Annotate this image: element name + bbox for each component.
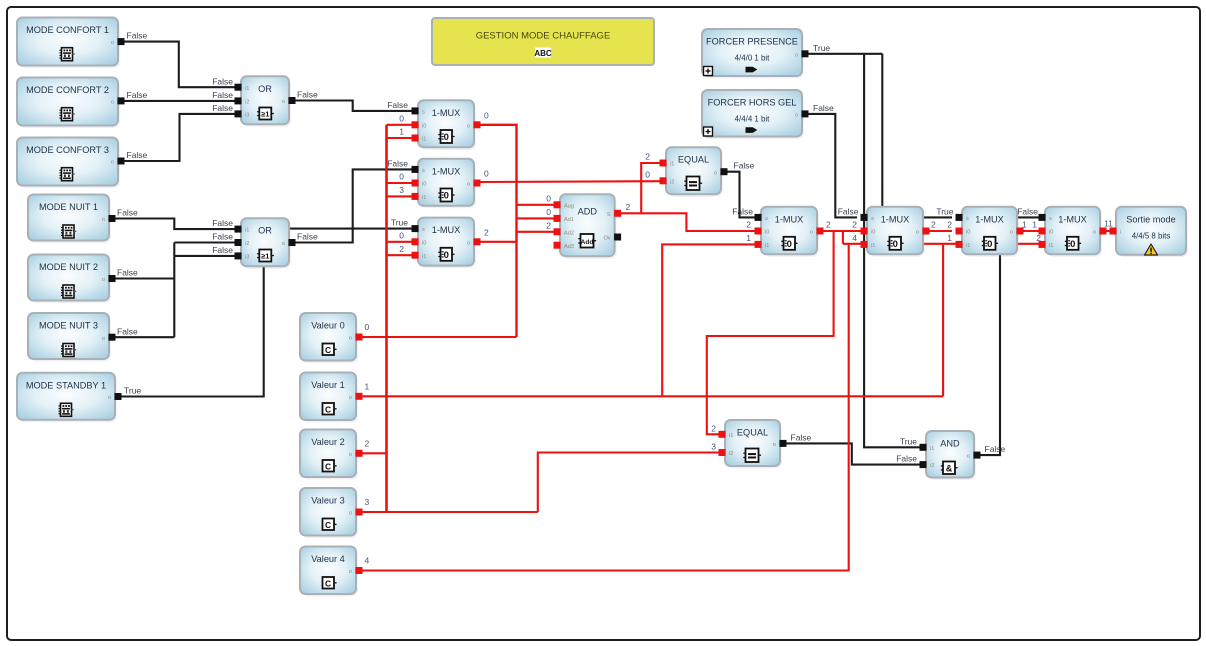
svg-text:OR: OR (258, 226, 272, 236)
wire net Valeur0 row (358, 336, 517, 338)
svg-text:C: C (325, 578, 331, 588)
svg-text:ABC: ABC (534, 49, 552, 58)
svg-text:Valeur 2: Valeur 2 (311, 437, 345, 447)
svg-text:False: False (985, 444, 1006, 454)
svg-text:o: o (282, 241, 285, 247)
svg-text:Aug: Aug (564, 203, 574, 209)
block EQUAL U4 (660, 147, 728, 197)
wire net E.i1 feeder drop (842, 231, 844, 244)
svg-text:&: & (946, 463, 953, 473)
svg-text:False: False (297, 232, 318, 242)
svg-text:EQUAL: EQUAL (678, 155, 709, 165)
svg-text:4/4/5 8 bits: 4/4/5 8 bits (1132, 231, 1171, 240)
svg-text:False: False (117, 268, 138, 278)
wire net STANDBY1.o -&gt; MUXC.s (118, 229, 414, 397)
wire stub MUXA.i1 (387, 137, 415, 139)
svg-text:False: False (387, 158, 408, 168)
svg-text:11: 11 (1104, 219, 1113, 229)
svg-text:Valeur 1: Valeur 1 (311, 380, 345, 390)
svg-text:False: False (813, 103, 834, 113)
wire net Valeur0 trunk vertical (385, 125, 388, 512)
svg-text:EQUAL: EQUAL (737, 428, 768, 438)
svg-text:0: 0 (893, 239, 898, 250)
svg-text:0: 0 (399, 230, 404, 240)
block 1-MUX D (755, 207, 824, 257)
svg-text:False: False (734, 161, 755, 171)
wire net MUXC.o -&gt; ADD.Ad2 (478, 232, 556, 242)
wire stub MUXC.i0 (387, 241, 415, 243)
wire net MUXF.o -&gt; MUXG.i0 (1021, 230, 1041, 232)
wire net MUXB.o -&gt; EQUAL1.i2 (478, 180, 662, 183)
svg-text:1-MUX: 1-MUX (1058, 214, 1087, 224)
svg-text:≥1: ≥1 (261, 252, 269, 261)
svg-text:i1: i1 (930, 446, 934, 452)
svg-text:True: True (936, 206, 953, 216)
svg-text:2: 2 (399, 244, 404, 254)
svg-text:False: False (117, 326, 138, 336)
wire stub MUXA.i0 (387, 124, 415, 126)
svg-text:o: o (102, 277, 105, 283)
svg-text:s: s (1049, 216, 1052, 222)
svg-text:0: 0 (444, 132, 449, 143)
svg-text:AND: AND (940, 439, 960, 449)
svg-text:0: 0 (365, 322, 370, 332)
svg-text:o: o (108, 395, 111, 401)
svg-text:3: 3 (365, 497, 370, 507)
svg-text:i3: i3 (245, 113, 249, 119)
wire stub ADD.Aug (517, 204, 557, 206)
svg-text:i1: i1 (245, 228, 249, 234)
wire net PRESENCE.o horizontal (804, 53, 882, 55)
icon FORCER PRESENCE plus (704, 67, 713, 76)
svg-text:i2: i2 (245, 241, 249, 247)
svg-text:2: 2 (852, 220, 857, 230)
svg-text:3: 3 (711, 442, 716, 452)
block 1-MUX B (412, 159, 481, 209)
svg-text:MODE NUIT 2: MODE NUIT 2 (39, 262, 98, 272)
svg-text:OR: OR (258, 84, 272, 94)
svg-text:S: S (607, 212, 611, 218)
svg-text:s: s (765, 216, 768, 222)
block ADD U3 (554, 194, 622, 259)
svg-text:≥1: ≥1 (261, 110, 269, 119)
svg-text:C: C (325, 461, 331, 471)
svg-text:False: False (212, 90, 233, 100)
svg-text:MODE CONFORT 3: MODE CONFORT 3 (26, 145, 109, 155)
block MODE NUIT 1 (28, 195, 116, 244)
wire net Valeur1 -&gt; MUXD.i1 (662, 244, 757, 396)
svg-text:0: 0 (444, 250, 449, 261)
svg-text:True: True (900, 436, 917, 446)
svg-text:1-MUX: 1-MUX (432, 166, 461, 176)
wire net EQUAL2.o -&gt; AND.i2 (783, 443, 922, 464)
svg-text:2: 2 (931, 220, 936, 230)
svg-text:0: 0 (787, 239, 792, 250)
wire net NUIT1.o -&gt; OR2.i1 (112, 219, 237, 230)
svg-text:o: o (111, 40, 114, 46)
block EQUAL U5 (719, 420, 787, 469)
svg-text:2: 2 (826, 220, 831, 230)
wire stub OR2.i3 (174, 255, 237, 257)
svg-text:Valeur 0: Valeur 0 (311, 321, 345, 331)
svg-text:i2: i2 (930, 463, 934, 469)
svg-text:s: s (871, 216, 874, 222)
svg-text:o: o (1010, 230, 1013, 236)
svg-text:GESTION MODE CHAUFFAGE: GESTION MODE CHAUFFAGE (476, 31, 611, 42)
block 1-MUX C (412, 218, 481, 269)
svg-text:False: False (791, 432, 812, 442)
svg-text:i0: i0 (765, 230, 769, 236)
svg-text:o: o (282, 99, 285, 105)
svg-text:1: 1 (746, 233, 751, 243)
block Valeur 4 (300, 547, 363, 597)
block Valeur 3 (300, 488, 363, 538)
svg-text:1: 1 (399, 127, 404, 137)
svg-text:i1: i1 (765, 243, 769, 249)
svg-text:i0: i0 (1049, 230, 1053, 236)
svg-text:False: False (212, 218, 233, 228)
svg-text:False: False (127, 90, 148, 100)
svg-text:i3: i3 (245, 255, 249, 261)
wire net MUXE.o -&gt; MUXF.i0 (927, 230, 952, 232)
svg-text:i1: i1 (966, 243, 970, 249)
svg-text:o: o (967, 454, 970, 460)
svg-text:FORCER HORS GEL: FORCER HORS GEL (708, 98, 797, 108)
svg-text:o: o (467, 240, 470, 246)
svg-text:1: 1 (947, 233, 952, 243)
svg-text:False: False (117, 208, 138, 218)
svg-text:o: o (111, 160, 114, 166)
block MODE CONFORT 1 (17, 18, 125, 69)
svg-text:Ov: Ov (603, 236, 610, 242)
svg-text:False: False (212, 103, 233, 113)
svg-text:1-MUX: 1-MUX (881, 214, 910, 224)
svg-text:o: o (349, 452, 352, 458)
wire net OR1.o -&gt; MUXA.s (287, 101, 414, 111)
svg-text:0: 0 (399, 172, 404, 182)
block 1-MUX G (1039, 207, 1107, 257)
wire net ADD.S -&gt; MUXD.i0 (641, 213, 757, 231)
svg-text:2: 2 (947, 220, 952, 230)
wire stub MUXB.i0 (387, 182, 415, 184)
wire stub MUXC.i1 (387, 254, 415, 256)
wire net MUXA.o -&gt; ADD riser (478, 125, 517, 337)
block Valeur 2 (300, 430, 363, 480)
svg-text:0: 0 (484, 169, 489, 179)
svg-text:Ad2: Ad2 (564, 230, 574, 236)
block Valeur 1 (300, 373, 363, 423)
svg-text:MODE CONFORT 2: MODE CONFORT 2 (26, 85, 109, 95)
svg-text:i2: i2 (245, 100, 249, 106)
wire net MUXG.o -&gt; SORTIE.i (1104, 230, 1112, 232)
wire net NUIT3.o corner (112, 336, 174, 338)
svg-text:i0: i0 (422, 182, 426, 188)
svg-text:FORCER PRESENCE: FORCER PRESENCE (706, 37, 798, 47)
svg-text:True: True (391, 218, 408, 228)
svg-text:True: True (124, 386, 141, 396)
svg-text:False: False (212, 76, 233, 86)
block FORCER PRESENCE (702, 29, 809, 79)
wire net CONFORT1.o -&gt; OR1.i1 (121, 42, 237, 88)
svg-text:i0: i0 (871, 230, 875, 236)
wire stub MUXB.i1 (387, 195, 415, 197)
svg-text:False: False (127, 31, 148, 41)
svg-text:False: False (838, 206, 859, 216)
wire net row i1 right chain (843, 243, 1041, 245)
svg-text:o: o (349, 336, 352, 342)
svg-text:o: o (773, 442, 776, 448)
wire net EQUAL1.o -&gt; MUXD.s (725, 172, 757, 218)
svg-text:MODE CONFORT 1: MODE CONFORT 1 (26, 25, 109, 35)
svg-text:Add: Add (581, 239, 594, 246)
svg-text:i0: i0 (422, 240, 426, 246)
svg-text:o: o (1093, 230, 1096, 236)
wire stub OR2.i2 (174, 241, 237, 243)
svg-text:C: C (325, 404, 331, 414)
svg-text:i1: i1 (1049, 243, 1053, 249)
svg-text:i2: i2 (729, 451, 733, 457)
wire net MUXD.o -&gt; EQUAL2.i1 (707, 231, 834, 434)
wire net MUXD.o -&gt; MUXE.i0 (821, 230, 863, 232)
svg-text:0: 0 (645, 169, 650, 179)
svg-text:i1: i1 (729, 433, 733, 439)
block 1-MUX A (412, 100, 481, 150)
wire stub ADD.Ad1 (517, 217, 557, 219)
svg-text:i1: i1 (670, 162, 674, 168)
svg-text:3: 3 (399, 185, 404, 195)
svg-text:1: 1 (1032, 220, 1037, 230)
svg-text:MODE NUIT 1: MODE NUIT 1 (39, 202, 98, 212)
svg-text:Ad1: Ad1 (564, 217, 574, 223)
svg-text:C: C (325, 345, 331, 355)
svg-text:2: 2 (484, 228, 489, 238)
svg-text:o: o (810, 230, 813, 236)
svg-text:s: s (966, 216, 969, 222)
svg-text:o: o (349, 395, 352, 401)
svg-text:4: 4 (852, 233, 857, 243)
wire net Valeur1 row (358, 395, 943, 397)
svg-text:False: False (297, 90, 318, 100)
svg-text:False: False (387, 100, 408, 110)
svg-text:Ad3: Ad3 (564, 244, 574, 250)
block MODE STANDBY 1 (17, 373, 122, 423)
svg-text:False: False (732, 206, 753, 216)
title box GESTION MODE CHAUFFAGE (432, 18, 654, 65)
svg-text:s: s (422, 110, 425, 116)
wire net PRESENCE -&gt; MUXF.s (882, 54, 952, 218)
wire net CONFORT2.o -&gt; OR1.i2 (121, 100, 237, 102)
svg-text:4/4/4 1 bit: 4/4/4 1 bit (735, 115, 770, 124)
wire net NUIT2.o junction (112, 277, 174, 279)
svg-text:o: o (916, 230, 919, 236)
svg-text:Sortie mode: Sortie mode (1126, 214, 1176, 224)
svg-text:False: False (212, 232, 233, 242)
icon FORCER HORS GEL flag (746, 127, 758, 133)
svg-text:i1: i1 (245, 86, 249, 92)
svg-text:0: 0 (987, 239, 992, 250)
svg-text:0: 0 (1070, 239, 1075, 250)
block OR U1 (235, 76, 296, 127)
block 1-MUX E (861, 207, 930, 257)
svg-text:2: 2 (711, 423, 716, 433)
svg-text:ADD: ADD (578, 207, 598, 217)
wire net OR2 input trunk (173, 243, 175, 338)
svg-text:0: 0 (546, 193, 551, 203)
block 1-MUX F (956, 207, 1024, 257)
wire net ADD.S -&gt; EQUAL1.i1 (641, 163, 662, 213)
svg-text:i1: i1 (422, 195, 426, 201)
svg-text:o: o (349, 569, 352, 575)
svg-text:4/4/0 1 bit: 4/4/0 1 bit (735, 54, 770, 63)
wire net Valeur4 row -&gt; MUXE.i1 riser (358, 244, 849, 571)
svg-text:s: s (422, 227, 425, 233)
wire net HORSGEL.o -&gt; MUXE.s (804, 114, 857, 217)
wire net AND.o -&gt; MUXG.s (977, 217, 1041, 455)
icon FORCER PRESENCE flag (746, 67, 758, 73)
svg-text:i1: i1 (871, 243, 875, 249)
svg-text:2: 2 (746, 220, 751, 230)
svg-text:i0: i0 (966, 230, 970, 236)
svg-text:i0: i0 (422, 123, 426, 129)
wire net PRESENCE -&gt; AND.i1 (864, 54, 922, 448)
wire net CONFORT3.o -&gt; OR1.i3 (121, 114, 237, 161)
block MODE CONFORT 2 (17, 78, 125, 129)
svg-text:1-MUX: 1-MUX (975, 214, 1004, 224)
svg-text:o: o (795, 113, 798, 119)
wire net Valeur3 row (358, 511, 538, 513)
icon SORTIE warning (1145, 244, 1158, 255)
block SORTIE MODE (1110, 207, 1189, 257)
svg-text:1-MUX: 1-MUX (775, 214, 804, 224)
svg-text:False: False (212, 245, 233, 255)
svg-text:o: o (349, 511, 352, 517)
block AND U6 (920, 431, 981, 480)
svg-text:True: True (813, 43, 830, 53)
svg-text:0: 0 (444, 191, 449, 202)
block MODE NUIT 3 (28, 313, 116, 362)
wire net Valeur1 -&gt; MUXF.i1 riser (942, 244, 944, 396)
block Valeur 0 (300, 313, 363, 363)
svg-text:2: 2 (626, 202, 631, 212)
svg-text:2: 2 (645, 152, 650, 162)
svg-text:MODE NUIT 3: MODE NUIT 3 (39, 321, 98, 331)
svg-text:o: o (795, 52, 798, 58)
block MODE NUIT 2 (28, 255, 116, 304)
svg-text:2: 2 (365, 438, 370, 448)
svg-text:o: o (714, 170, 717, 176)
svg-text:Valeur 4: Valeur 4 (311, 554, 345, 564)
svg-text:False: False (896, 454, 917, 464)
svg-text:0: 0 (484, 111, 489, 121)
svg-text:o: o (102, 217, 105, 223)
svg-text:o: o (467, 123, 470, 129)
svg-text:1-MUX: 1-MUX (432, 225, 461, 235)
svg-text:False: False (127, 150, 148, 160)
svg-text:C: C (325, 520, 331, 530)
svg-text:4: 4 (365, 556, 370, 566)
block FORCER HORS GEL (702, 90, 809, 139)
svg-text:Valeur 3: Valeur 3 (311, 496, 345, 506)
svg-text:1-MUX: 1-MUX (432, 108, 461, 118)
svg-text:s: s (422, 168, 425, 174)
wire net ADD.S junction (618, 212, 641, 214)
wire net OR2.o -&gt; MUXB.s (287, 169, 414, 242)
svg-text:2: 2 (546, 220, 551, 230)
svg-text:i1: i1 (422, 137, 426, 143)
icon FORCER HORS GEL plus (704, 127, 713, 136)
wire net Valeur2 row (358, 452, 387, 454)
svg-text:False: False (1017, 206, 1038, 216)
svg-text:1: 1 (365, 381, 370, 391)
svg-text:o: o (111, 100, 114, 106)
svg-text:o: o (467, 182, 470, 188)
svg-text:0: 0 (546, 207, 551, 217)
svg-text:o: o (102, 336, 105, 342)
svg-text:i: i (1120, 230, 1121, 236)
svg-text:i1: i1 (422, 254, 426, 260)
block OR U2 (235, 218, 296, 269)
svg-text:0: 0 (399, 113, 404, 123)
block MODE CONFORT 3 (17, 138, 125, 189)
svg-text:MODE STANDBY 1: MODE STANDBY 1 (26, 380, 106, 390)
svg-text:i2: i2 (670, 179, 674, 185)
wire net Valeur3 -&gt; EQUAL2.i2 (538, 453, 721, 513)
